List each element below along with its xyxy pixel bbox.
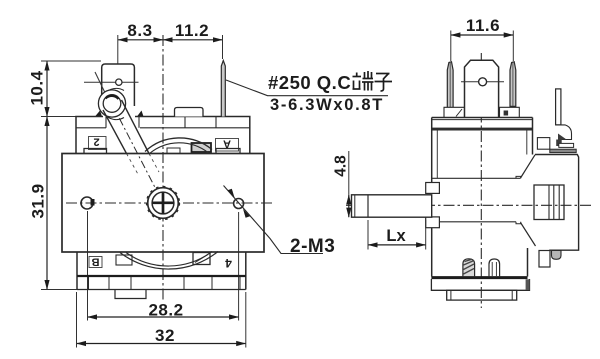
lower body left edge bbox=[431, 228, 433, 277]
side view horizontal centerline bbox=[346, 204, 591, 206]
flange outline bbox=[431, 279, 529, 290]
side view right terminal pin bbox=[510, 62, 516, 107]
knob hole crosshair (side view) bbox=[461, 81, 504, 83]
left pin inner line bbox=[449, 63, 451, 107]
svg-text:4.8: 4.8 bbox=[333, 155, 350, 177]
upper block bottom line bbox=[432, 177, 521, 179]
left mounting hole bbox=[81, 197, 93, 209]
lever pivot circle bbox=[98, 90, 125, 117]
side body left edge upper bbox=[431, 118, 433, 183]
front plate bbox=[62, 154, 264, 253]
right pin foot bbox=[500, 107, 520, 117]
dimension 10.4 line bbox=[46, 61, 48, 117]
shaft step upper bbox=[426, 183, 440, 194]
extension line left hole to 28.2 bbox=[87, 211, 89, 321]
svg-text:32: 32 bbox=[155, 326, 175, 345]
plain pin bbox=[489, 259, 500, 276]
right mounting hole bbox=[234, 199, 244, 209]
side bracket base bbox=[550, 149, 576, 152]
svg-text:A: A bbox=[223, 138, 231, 150]
knob hole bbox=[116, 79, 122, 85]
lever arm hidden left edge bbox=[127, 154, 140, 177]
rotor upper arc inner bbox=[150, 143, 209, 154]
side body top inner edge bbox=[432, 119, 533, 121]
front view: knob body bbox=[102, 64, 135, 106]
shaft inner circle bbox=[152, 192, 174, 214]
extension line right of 11.6 bbox=[512, 31, 514, 62]
extension line top of 10.4 bbox=[41, 60, 101, 62]
strip divider b bbox=[108, 277, 110, 290]
lower housing right edge bbox=[245, 252, 247, 290]
left hole thread nub bbox=[91, 199, 95, 206]
side bracket hook bbox=[556, 125, 572, 140]
housing tab divider 2 bbox=[138, 117, 140, 128]
boss stripe 3 bbox=[558, 185, 560, 220]
left pin foot diagonal bbox=[456, 109, 462, 117]
extension line right of Lx bbox=[425, 220, 427, 250]
side bracket blade bbox=[556, 89, 561, 125]
lower body right edge bbox=[527, 248, 529, 277]
terminal note CJK duan bbox=[353, 71, 374, 91]
dimension 32 line bbox=[77, 343, 246, 345]
left pin foot bbox=[444, 107, 465, 117]
lower contact window left bbox=[116, 255, 132, 265]
lower housing left edge bbox=[76, 252, 78, 290]
extension line right of 11.2 bbox=[222, 35, 224, 59]
base thick line bbox=[431, 276, 527, 279]
svg-text:31.9: 31.9 bbox=[29, 183, 48, 218]
lower contact window right bbox=[193, 253, 210, 265]
lever pivot inner dark arc bbox=[106, 96, 119, 99]
bottom tab bbox=[115, 290, 146, 299]
rotor upper arc outer bbox=[145, 138, 212, 152]
svg-text:B: B bbox=[91, 255, 99, 267]
horizontal centerline of front view bbox=[66, 202, 272, 204]
shaft slot vertical bar bbox=[162, 192, 165, 213]
shaft bumpy ring bbox=[147, 187, 180, 220]
plate step left bbox=[84, 149, 107, 154]
svg-text:#250 Q.C: #250 Q.C bbox=[268, 72, 351, 93]
dimension 8.3 line bbox=[118, 39, 163, 41]
label B box bbox=[89, 257, 102, 268]
svg-text:28.2: 28.2 bbox=[148, 301, 183, 320]
below mid block dark notch bbox=[552, 251, 562, 260]
shaft step lower bbox=[426, 217, 440, 228]
contact window A bbox=[216, 139, 239, 152]
extension line left of 8.3 bbox=[117, 35, 119, 93]
extension line bottom of 31.9 bbox=[41, 289, 112, 291]
dimension 31.9 line bbox=[46, 117, 48, 290]
right pin inner line bbox=[512, 63, 514, 106]
extension line left of Lx bbox=[367, 220, 369, 250]
rotor lower arc inner bbox=[126, 252, 212, 267]
svg-text:3-6.3Wx0.8T: 3-6.3Wx0.8T bbox=[270, 96, 384, 114]
plain pin inner lines bbox=[492, 262, 496, 276]
upper housing inner line right bbox=[140, 127, 250, 129]
extension line right body to 32 bbox=[245, 292, 247, 348]
housing tab divider 4 bbox=[215, 117, 217, 128]
housing tab divider 1 bbox=[105, 117, 107, 128]
mid block lower-left chamfer bbox=[432, 221, 516, 223]
terminal strip top line bbox=[77, 275, 246, 277]
lever pivot inner circle bbox=[103, 95, 121, 113]
shaft groove line bbox=[367, 195, 369, 217]
lever bracket right wedge bbox=[137, 111, 144, 117]
svg-text:11.2: 11.2 bbox=[175, 21, 209, 40]
bracket hook dark wedge bbox=[558, 134, 567, 140]
side bracket flat bbox=[559, 143, 574, 147]
raised tab on housing top bbox=[175, 108, 204, 117]
upper housing top edge bbox=[76, 117, 250, 154]
svg-text:2-M3: 2-M3 bbox=[290, 236, 335, 257]
side body top edge bbox=[432, 117, 533, 119]
side body right edge upper bbox=[532, 118, 534, 155]
terminal note CJK zi bbox=[375, 74, 393, 92]
svg-text:2: 2 bbox=[93, 136, 99, 148]
rotor lower arc outer bbox=[120, 252, 218, 270]
shaft slot horizontal bar bbox=[152, 201, 173, 204]
shaft outer circle bbox=[148, 188, 179, 219]
extension line right hole to 28.2 bbox=[238, 212, 240, 321]
inner vertical right bbox=[526, 131, 528, 155]
shaft (side view) bbox=[352, 195, 432, 217]
side bracket left box bbox=[537, 138, 549, 150]
boss stripe 1 bbox=[548, 185, 550, 220]
side view knob bbox=[465, 60, 499, 117]
terminal note leader bbox=[226, 80, 388, 96]
mid block outline bbox=[535, 155, 579, 251]
waist step bump lower bbox=[516, 222, 521, 224]
lever arm left edge bbox=[103, 110, 127, 154]
strip divider f bbox=[239, 277, 241, 290]
dimension Lx line bbox=[368, 244, 426, 246]
lever arm right edge bbox=[122, 100, 150, 154]
lever pivot outer arc bbox=[101, 88, 124, 119]
dimension 11.2 line bbox=[163, 39, 223, 41]
base block inner left bbox=[450, 290, 452, 300]
rotor contact dark block bbox=[192, 143, 212, 152]
dimension 11.6 line bbox=[451, 34, 514, 36]
svg-text:11.6: 11.6 bbox=[466, 16, 500, 35]
shaft tip line bbox=[354, 195, 356, 217]
lower window diagonal bbox=[195, 255, 208, 263]
svg-text:4: 4 bbox=[225, 256, 232, 270]
strip divider d bbox=[183, 277, 185, 290]
striped boss bbox=[534, 185, 564, 220]
spring pin bbox=[463, 259, 475, 276]
lever arm hidden right edge bbox=[149, 154, 159, 173]
plate step right bbox=[216, 149, 240, 154]
leader arrow upper bbox=[228, 189, 235, 198]
vertical centerline of front view bbox=[162, 35, 164, 301]
right pin foot dark square bbox=[504, 111, 509, 116]
below mid block small box bbox=[539, 251, 550, 268]
contact window 2 bbox=[89, 137, 107, 150]
waist step bump upper bbox=[516, 176, 521, 178]
side bracket dark clip bbox=[556, 140, 562, 147]
inner vertical left bbox=[436, 131, 438, 179]
chamfer to mid block bbox=[521, 155, 536, 178]
spring pin hatch bbox=[464, 259, 475, 274]
leader arrow lower bbox=[243, 209, 250, 218]
lever axis centerline bbox=[112, 104, 163, 203]
svg-text:8.3: 8.3 bbox=[127, 21, 152, 40]
leader line to 2-M3 bbox=[224, 186, 324, 254]
lever spring wire bbox=[95, 72, 109, 100]
side view vertical centerline bbox=[480, 53, 482, 308]
housing tab divider 3 bbox=[184, 117, 186, 128]
terminal pin edge-on (front view) bbox=[221, 61, 225, 117]
extension line mid at y116 bbox=[41, 116, 77, 118]
lower chamfer bbox=[521, 223, 536, 247]
dimension 4.8 line bbox=[348, 151, 350, 195]
boss stripe 2 bbox=[553, 185, 555, 220]
rotor arc foot bbox=[167, 148, 180, 154]
side body dark band bbox=[432, 128, 533, 131]
dimension 28.2 line bbox=[88, 316, 239, 318]
extension line left of 11.6 bbox=[450, 31, 452, 62]
strip divider e bbox=[211, 277, 213, 290]
terminal strip bottom line bbox=[77, 289, 246, 291]
strip divider a bbox=[88, 277, 90, 290]
strip divider c bbox=[130, 277, 132, 290]
upper housing inner line left bbox=[76, 127, 106, 129]
side view left terminal pin bbox=[447, 62, 453, 108]
knob hole (side view) bbox=[479, 78, 487, 86]
flange dark right cap bbox=[526, 279, 530, 290]
base block inner right bbox=[511, 290, 513, 300]
svg-text:Lx: Lx bbox=[386, 227, 406, 245]
bottom base block bbox=[447, 290, 517, 300]
extension line left body to 32 bbox=[76, 292, 78, 348]
knob hole crosshair bbox=[84, 81, 139, 83]
lever bracket left wedge bbox=[95, 111, 102, 117]
svg-text:10.4: 10.4 bbox=[28, 70, 47, 105]
